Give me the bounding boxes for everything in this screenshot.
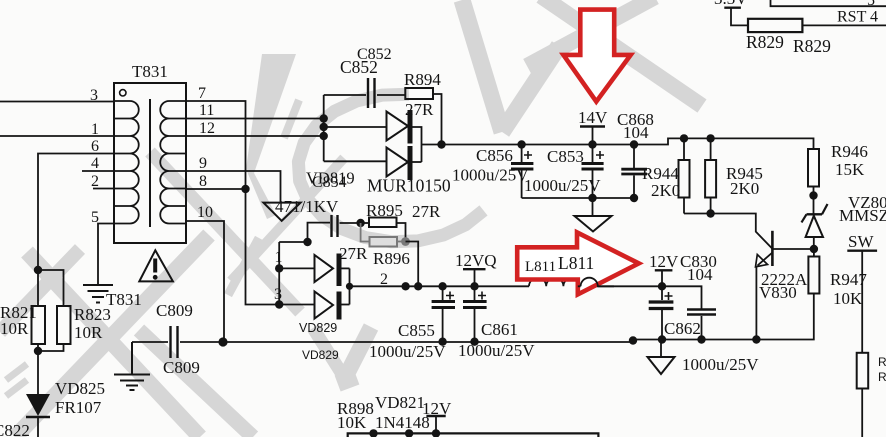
svg-text:C861: C861 (481, 320, 518, 339)
resistor R947 (808, 249, 819, 294)
net label 12VQ (463, 269, 486, 286)
red arrows (517, 10, 639, 295)
node R821/R823 bottom (34, 347, 42, 355)
svg-text:VD825: VD825 (55, 379, 105, 398)
svg-text:1: 1 (275, 249, 283, 266)
IC box (bottom) (348, 433, 599, 437)
resistor R821 (32, 270, 46, 351)
svg-text:VD829: VD829 (299, 321, 337, 335)
junction C861 top (470, 282, 478, 290)
capacitor C868 (621, 145, 647, 199)
svg-text:C856: C856 (476, 146, 513, 165)
svg-text:10R: 10R (0, 319, 29, 338)
svg-text:15K: 15K (835, 160, 865, 179)
capacitor C830 (687, 310, 716, 340)
anode bracket node (323, 95, 325, 161)
svg-text:12VQ: 12VQ (455, 251, 497, 270)
junction C853 bottom (588, 194, 596, 202)
VD829 cathode link (349, 268, 351, 304)
svg-text:1000u/25V: 1000u/25V (524, 176, 601, 195)
ground return rail (223, 294, 814, 343)
junction 12V tap (658, 282, 666, 290)
capacitor C809 (132, 326, 223, 358)
base link wire (684, 214, 772, 249)
pin 7 wire (186, 101, 279, 305)
junction C855 top (438, 282, 446, 290)
svg-text:T831: T831 (132, 62, 168, 81)
pin 1 wire (0, 135, 114, 137)
junction VD829 lower anode (275, 300, 283, 308)
pin 2 wire (93, 188, 114, 190)
capacitor C852 (324, 78, 406, 108)
net label 12V (right) (655, 270, 673, 286)
svg-text:14V: 14V (578, 108, 608, 127)
pin 12 wire (186, 135, 324, 137)
resistor R896 (gray) (361, 223, 406, 247)
pin 3 wire (0, 101, 114, 103)
svg-text:R896: R896 (373, 249, 410, 268)
svg-text:6: 6 (91, 138, 99, 155)
zener diode VZ808 (802, 204, 828, 249)
svg-text:R895: R895 (366, 201, 403, 220)
svg-text:MUR10150: MUR10150 (367, 176, 451, 196)
svg-text:R823: R823 (74, 305, 111, 324)
ground C809 (bar style) (114, 342, 150, 390)
svg-text:10K: 10K (337, 413, 367, 432)
svg-text:3: 3 (274, 286, 282, 303)
diode MUR10150 lower (324, 146, 422, 180)
resistor R946 (808, 149, 819, 214)
svg-text:10K: 10K (833, 289, 863, 308)
resistor R829 (748, 19, 886, 32)
svg-text:VD819: VD819 (306, 169, 355, 188)
svg-text:L811: L811 (558, 253, 594, 273)
junction VD829 upper anode (275, 264, 283, 272)
svg-text:104: 104 (623, 123, 649, 142)
svg-text:C853: C853 (547, 147, 584, 166)
junction emitter-rail (752, 335, 760, 343)
junction pin7/8 (241, 185, 249, 193)
svg-text:R9: R9 (878, 370, 886, 384)
ground triangle (C853) (575, 198, 612, 232)
junction (x405) (401, 282, 409, 290)
net label 12V (bottom) (422, 399, 452, 433)
diode output wire (422, 138, 814, 149)
svg-text:11: 11 (199, 102, 214, 119)
ground T831 (bar style) (83, 285, 113, 303)
resistor R944 (679, 138, 690, 213)
VD829 output node (346, 283, 353, 290)
junction collector node (810, 245, 818, 253)
warning triangle under T831 (139, 250, 173, 281)
junction R945 top (706, 134, 714, 142)
svg-text:8: 8 (199, 173, 207, 190)
svg-text:1000u/25V: 1000u/25V (369, 342, 446, 361)
pin 8 wire (186, 188, 246, 190)
svg-text:104: 104 (687, 265, 713, 284)
svg-text:MMSZ5: MMSZ5 (839, 206, 886, 225)
node C809 / pin10 (218, 337, 227, 346)
junction C862 bottom (658, 335, 666, 343)
resistor R894 (405, 88, 441, 145)
wire L811 to 12V (598, 286, 702, 308)
IC box corner (top right) (771, 0, 886, 6)
pin 9 wire (186, 171, 281, 203)
svg-text:4: 4 (91, 155, 99, 172)
junction pin11-bracket (320, 114, 328, 122)
svg-text:VD821: VD821 (375, 393, 425, 412)
junction C854 drop (303, 238, 311, 246)
capacitor C862 (649, 286, 674, 339)
ground triangle (pin 9) (263, 203, 300, 221)
lower link rail (C856/C853/C868) (522, 197, 634, 199)
junction C856 top (517, 140, 525, 148)
diode VD829 upper (279, 254, 349, 287)
svg-text:SW: SW (848, 232, 874, 251)
svg-text:C809: C809 (156, 301, 193, 320)
junction C855 bottom (438, 338, 446, 346)
inductor L811 (529, 278, 598, 287)
svg-text:12: 12 (199, 120, 215, 137)
svg-text:R829: R829 (746, 32, 784, 52)
junction below R946 (809, 191, 817, 199)
transformer T831 (114, 62, 186, 243)
capacitor C854 (308, 215, 361, 242)
pin 5 wire (98, 224, 114, 286)
net label 14V (580, 127, 605, 145)
pin 6 wire (38, 154, 114, 271)
junction R895/R896 (gray) (401, 237, 410, 246)
svg-text:T831: T831 (106, 290, 142, 309)
junction C868 top (630, 140, 638, 148)
wire to VD825 (37, 351, 39, 394)
svg-text:L811: L811 (525, 259, 556, 275)
svg-text:2K0: 2K0 (651, 181, 680, 200)
svg-text:R946: R946 (831, 142, 868, 161)
junction C830 bottom (697, 335, 705, 343)
node R821/R823 top (34, 266, 42, 274)
red right arrow (517, 232, 639, 294)
junction rail jog (629, 336, 637, 344)
diode VD825 (26, 394, 50, 437)
pin 11 wire (186, 118, 324, 120)
svg-text:C855: C855 (398, 321, 435, 340)
resistor R823 (38, 270, 71, 351)
svg-text:C852: C852 (340, 57, 378, 77)
junction R945 bottom (706, 209, 714, 217)
svg-text:27R: 27R (412, 202, 441, 221)
svg-text:1000u/25V: 1000u/25V (452, 166, 529, 185)
diode MUR10150 upper (324, 110, 422, 162)
transistor V830 (756, 231, 814, 340)
net label SW (847, 251, 877, 353)
capacitor C853 (582, 145, 605, 199)
VD829 anode bracket (279, 242, 307, 305)
svg-text:V830: V830 (759, 283, 797, 302)
junction (x418) (414, 282, 422, 290)
svg-text:FR107: FR107 (55, 398, 102, 417)
svg-text:RST 4: RST 4 (837, 9, 878, 26)
wire R895/R896 to output (406, 242, 419, 287)
svg-text:27R: 27R (339, 244, 368, 263)
capacitor C855 (432, 286, 455, 341)
junction C868 bottom (630, 194, 638, 202)
junction pin (R898) (369, 429, 377, 437)
svg-text:VD829: VD829 (302, 348, 339, 362)
junction pin (12V) (432, 429, 440, 437)
svg-text:2: 2 (91, 173, 99, 190)
junction R944 top (680, 134, 688, 142)
svg-text:471/1KV: 471/1KV (275, 197, 339, 216)
resistor R945 (705, 138, 716, 213)
pin 4 wire (82, 170, 114, 172)
capacitor C856 (511, 145, 533, 199)
svg-text:12V: 12V (649, 252, 679, 271)
resistor on SW line (857, 353, 869, 437)
svg-text:10R: 10R (74, 323, 103, 342)
svg-text:R9: R9 (878, 355, 886, 369)
junction R894-output (437, 140, 445, 148)
svg-text:C822: C822 (0, 421, 30, 437)
svg-text:R829: R829 (793, 36, 831, 56)
red down arrow (563, 10, 630, 102)
junction C853 top (588, 140, 596, 148)
junction C861 bottom (470, 338, 478, 346)
svg-text:7: 7 (198, 85, 206, 102)
resistor R895 (361, 218, 406, 242)
capacitor C861 (463, 286, 487, 341)
junction pin (VD821) (405, 429, 413, 437)
net label 3.3V (cut) (714, 0, 748, 25)
svg-text:R894: R894 (404, 70, 441, 89)
ground triangle (C862) (648, 340, 675, 375)
svg-text:C809: C809 (163, 358, 200, 377)
junction pin12-bracket (320, 132, 328, 140)
svg-text:10: 10 (197, 204, 213, 221)
svg-text:C862: C862 (664, 319, 701, 338)
12V output wire (350, 285, 530, 287)
pin 10 wire (186, 221, 224, 342)
svg-text:1000u/25V: 1000u/25V (458, 341, 535, 360)
junction C854-R895 (356, 219, 364, 227)
svg-text:2K0: 2K0 (730, 179, 759, 198)
junction anode-bracket (320, 123, 328, 131)
svg-text:1000u/25V: 1000u/25V (682, 355, 759, 374)
svg-text:9: 9 (199, 155, 207, 172)
watermark gray strokes (0, 0, 702, 437)
diode VD829 lower (279, 292, 349, 320)
inductor L811 hump (over arrow) (578, 278, 614, 287)
